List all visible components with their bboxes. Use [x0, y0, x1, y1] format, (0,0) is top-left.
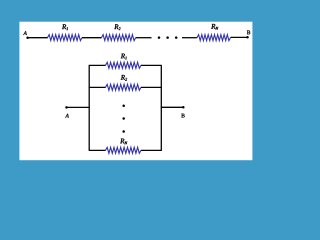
vertical ellipsis dot 1 [122, 105, 125, 108]
wire R2 to ellipsis [136, 37, 152, 39]
resistor R1 (parallel) [106, 62, 142, 68]
resistor RN (series) [197, 35, 231, 41]
parallel network right rail [160, 65, 162, 150]
label R1 (series) [62, 24, 68, 30]
label B (series) [247, 31, 250, 35]
bottom branch right wire [141, 149, 162, 151]
ellipsis dot 1 [158, 36, 161, 39]
parallel network left rail [88, 65, 90, 150]
label RN (parallel) [120, 139, 127, 145]
wire ellipsis to RN [182, 37, 197, 39]
white panel [19, 22, 252, 161]
resistor RN (parallel) [106, 147, 142, 153]
blue background [0, 0, 272, 180]
label R2 (parallel) [121, 75, 127, 81]
resistor R2 (parallel) [106, 84, 142, 90]
label R2 (series) [114, 24, 120, 30]
label B (parallel) [181, 114, 184, 118]
vertical ellipsis dot 2 [122, 117, 125, 120]
wire RN to B [231, 36, 248, 38]
branch 1 right wire [141, 64, 162, 66]
ellipsis dot 2 [166, 36, 169, 39]
label RN (series) [211, 24, 218, 30]
node B terminal (parallel) [182, 106, 185, 109]
wire right rail to node B (parallel) [161, 106, 184, 108]
ellipsis dot 3 [175, 36, 178, 39]
node A terminal (parallel) [65, 106, 68, 109]
branch 1 left wire [89, 64, 106, 66]
label A (series) [23, 31, 27, 35]
resistor R2 (series) [102, 35, 136, 41]
node B (series right terminal) [246, 36, 249, 39]
label A (parallel) [65, 114, 69, 118]
wire A to R1 [28, 37, 48, 39]
bottom branch left wire [89, 149, 106, 151]
wire node A to left rail (parallel) [67, 106, 90, 108]
branch 2 left wire [89, 86, 106, 88]
label R1 (parallel) [121, 54, 127, 60]
node A (series left terminal) [26, 37, 29, 40]
branch 2 right wire [141, 86, 162, 88]
resistor R1 (series) [48, 35, 83, 41]
vertical ellipsis dot 3 [122, 130, 125, 133]
wire R1 to R2 [82, 37, 102, 39]
